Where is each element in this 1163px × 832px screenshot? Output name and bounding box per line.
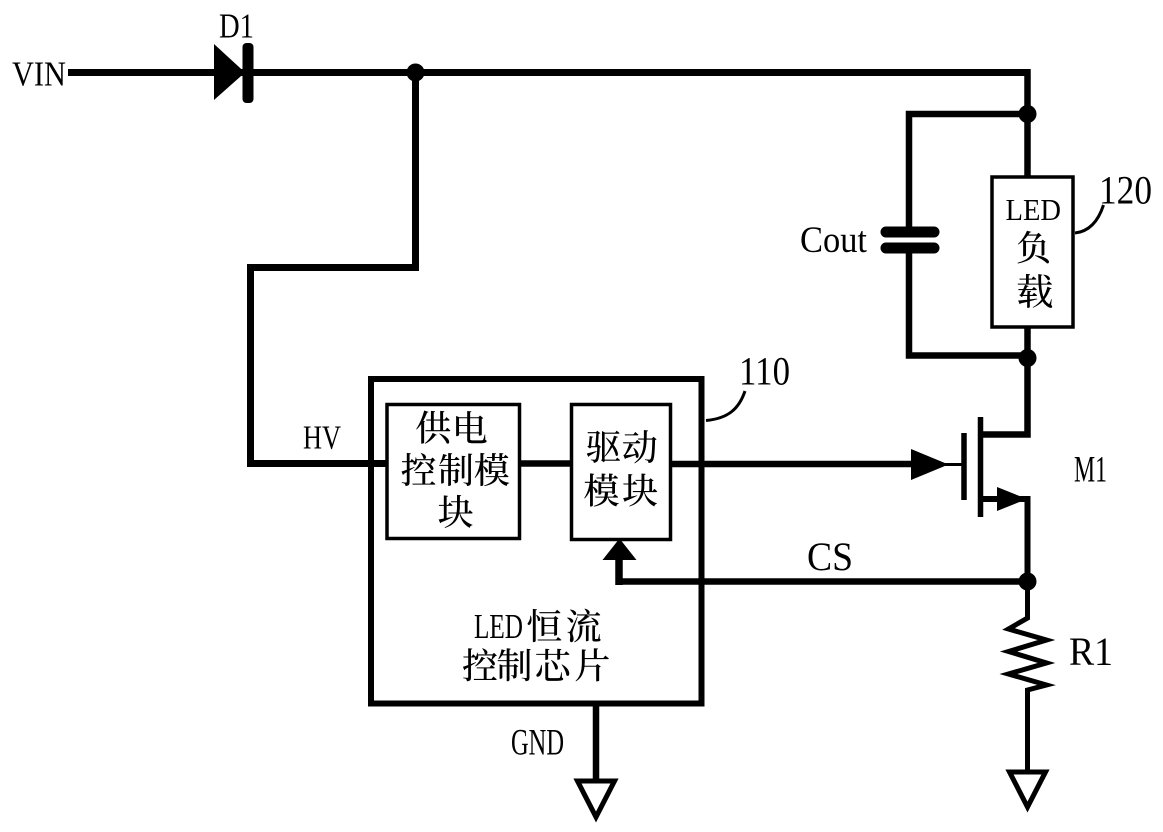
svg-text:LED: LED (1006, 192, 1062, 227)
svg-text:120: 120 (1099, 168, 1152, 213)
svg-text:110: 110 (739, 349, 790, 394)
svg-text:CS: CS (807, 534, 853, 579)
svg-text:Cout: Cout (800, 220, 868, 261)
svg-text:LED: LED (474, 607, 523, 646)
svg-text:GND: GND (511, 723, 564, 764)
svg-text:HV: HV (303, 420, 341, 457)
svg-text:VIN: VIN (12, 55, 66, 94)
svg-text:M1: M1 (1074, 450, 1107, 491)
svg-text:D1: D1 (219, 7, 254, 46)
svg-text:R1: R1 (1069, 629, 1113, 674)
